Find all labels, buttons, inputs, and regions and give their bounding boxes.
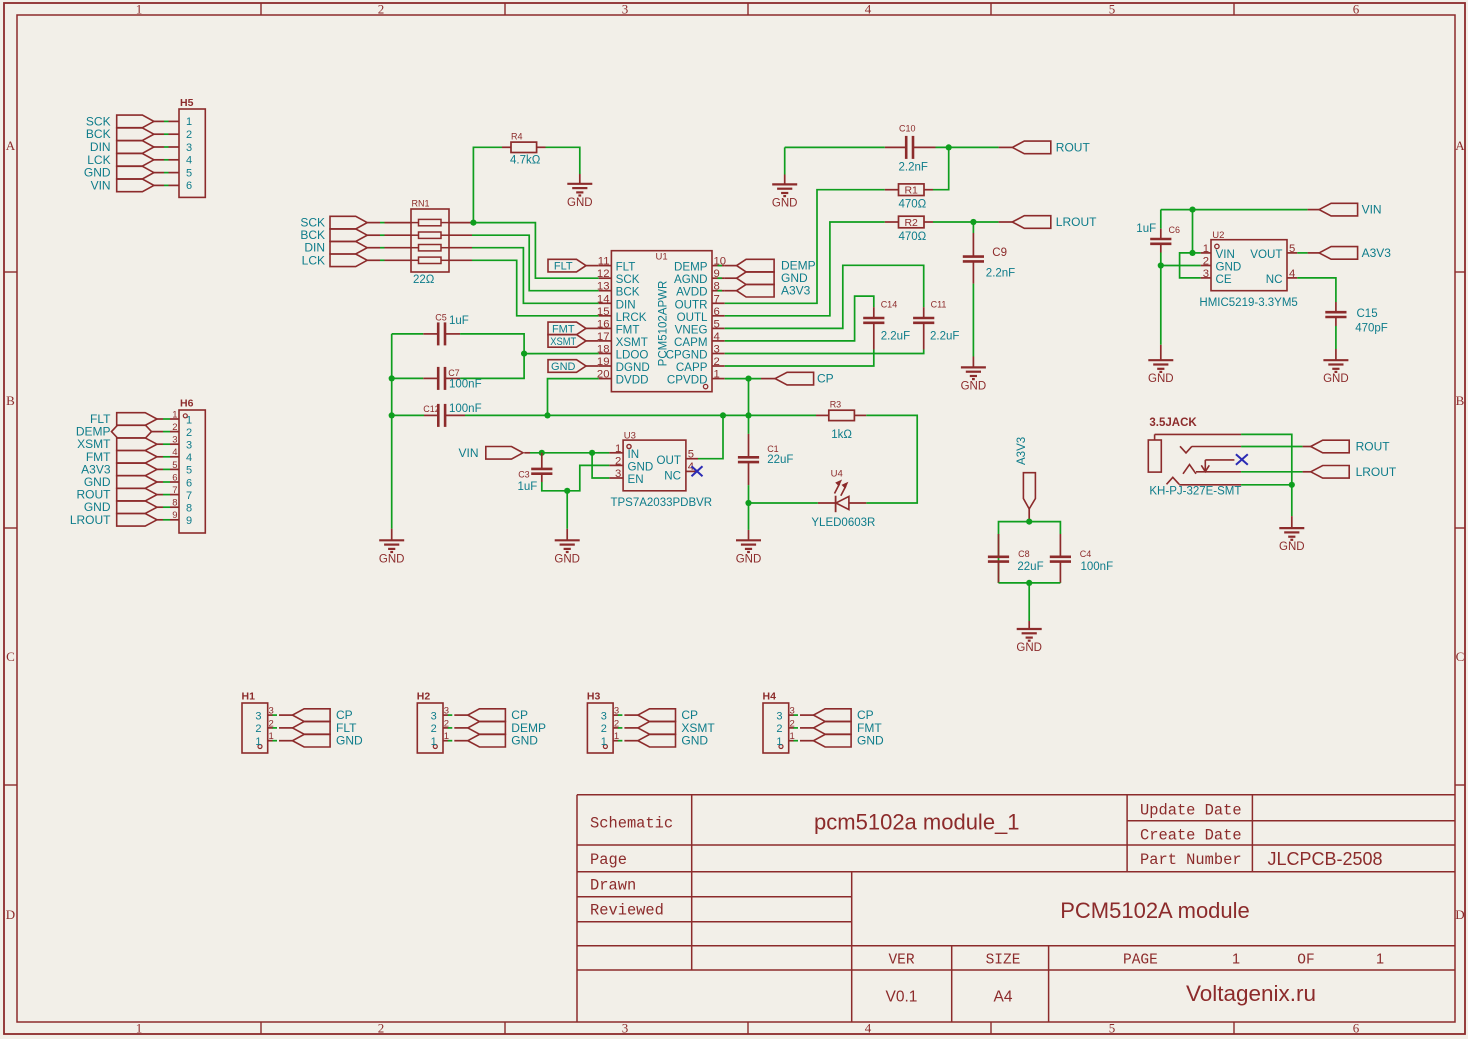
svg-text:GND: GND — [1323, 373, 1349, 385]
svg-text:4: 4 — [186, 155, 192, 167]
junction C12 gnd rail — [389, 412, 395, 418]
wire C11 to CPGND — [725, 350, 924, 354]
svg-text:C: C — [1456, 649, 1465, 664]
svg-text:3: 3 — [622, 1021, 629, 1036]
wire SCK — [449, 222, 473, 224]
capacitor C1 22uF — [738, 415, 794, 485]
svg-text:A: A — [6, 138, 16, 153]
net flag VIN (U2) — [1308, 203, 1382, 217]
H3 pin 3 flag CP — [613, 708, 698, 722]
capacitor C9 2.2nF — [963, 222, 1015, 284]
svg-text:1kΩ: 1kΩ — [831, 429, 852, 441]
svg-text:U1: U1 — [656, 252, 668, 263]
H6 pin 4 flag FMT — [86, 450, 179, 464]
svg-text:3: 3 — [615, 468, 621, 480]
svg-text:ROUT: ROUT — [1356, 440, 1391, 454]
wire jack gnd drop — [1291, 485, 1293, 516]
svg-text:CAPM: CAPM — [674, 336, 708, 349]
svg-text:18: 18 — [597, 344, 610, 356]
svg-text:GND: GND — [551, 361, 576, 373]
svg-text:U4: U4 — [831, 469, 843, 480]
junction C1/rail — [745, 412, 751, 418]
ground (C9) — [961, 357, 987, 393]
capacitor C4 100nF — [1050, 534, 1113, 583]
net flag GND — [718, 271, 809, 285]
net flag A3V3 — [718, 284, 811, 298]
svg-text:GND: GND — [1148, 373, 1174, 385]
svg-text:YLED0603R: YLED0603R — [811, 517, 875, 529]
svg-text:1uF: 1uF — [449, 315, 469, 327]
svg-text:SCK: SCK — [616, 273, 640, 286]
svg-text:GND: GND — [336, 734, 363, 748]
svg-text:AVDD: AVDD — [676, 286, 707, 299]
connector H5 — [179, 97, 205, 197]
svg-text:3: 3 — [255, 710, 261, 722]
ground (U3) — [554, 529, 580, 566]
svg-text:GND: GND — [1279, 541, 1305, 553]
wire VNEG to C11 — [725, 265, 924, 328]
svg-text:2: 2 — [378, 2, 385, 17]
svg-text:OUTL: OUTL — [677, 311, 708, 324]
net flag LROUT (jack) — [1303, 465, 1397, 479]
svg-text:C14: C14 — [881, 300, 898, 310]
net flag ROUT (jack) — [1303, 440, 1391, 454]
svg-text:1: 1 — [136, 2, 143, 17]
wire VIN top rail — [1161, 209, 1308, 211]
svg-text:H3: H3 — [587, 691, 601, 703]
svg-text:R1: R1 — [904, 185, 918, 197]
capacitor C10 2.2nF — [885, 124, 936, 174]
svg-text:C9: C9 — [992, 247, 1007, 259]
wire C6 to U2.GND — [1161, 253, 1201, 266]
svg-text:14: 14 — [597, 293, 610, 305]
svg-text:15: 15 — [597, 306, 610, 318]
connector H3 — [587, 691, 619, 754]
svg-text:6: 6 — [1353, 1021, 1360, 1036]
connector J1 3.5JACK KH-PJ-327E-SMT — [1148, 417, 1241, 498]
svg-text:H2: H2 — [417, 691, 431, 703]
wire U3 gnd drop — [566, 491, 568, 529]
svg-text:1: 1 — [186, 414, 192, 426]
wire OUTL to R2 — [725, 222, 885, 316]
wire U2 gnd drop — [1160, 266, 1162, 345]
no-connect X (jack mic) — [1236, 454, 1248, 465]
svg-text:U3: U3 — [624, 430, 636, 441]
svg-text:2: 2 — [186, 129, 192, 141]
svg-text:3: 3 — [431, 710, 437, 722]
wire C15 to GND — [1335, 326, 1337, 349]
wire DIN — [449, 247, 472, 249]
svg-text:100nF: 100nF — [449, 379, 482, 391]
svg-text:5: 5 — [1109, 2, 1116, 17]
wire CPVDD to 3V3 rail — [748, 379, 750, 416]
wire C9 to GND — [972, 284, 974, 357]
wire ROUT — [936, 146, 999, 148]
wire LED to gnd junction — [749, 502, 818, 504]
svg-text:2: 2 — [615, 455, 621, 467]
capacitor C3 1uF — [518, 453, 553, 493]
ground (jack) — [1279, 516, 1305, 553]
capacitor C12 100nF — [392, 403, 482, 427]
svg-text:C12: C12 — [423, 404, 440, 414]
net flag ROUT — [1012, 140, 1090, 154]
svg-text:470Ω: 470Ω — [899, 199, 927, 211]
junction C3 tap — [539, 450, 545, 456]
svg-text:11: 11 — [598, 256, 610, 268]
svg-text:1: 1 — [1376, 952, 1384, 968]
wire VIN drop to U2.VIN — [1192, 210, 1194, 253]
svg-text:2: 2 — [431, 723, 437, 735]
wire EN tie — [592, 453, 609, 478]
svg-text:2.2uF: 2.2uF — [881, 331, 910, 343]
H1 pin 1 flag GND — [268, 734, 363, 748]
svg-text:pcm5102a module_1: pcm5102a module_1 — [814, 810, 1019, 835]
wire C7 to LDOO — [460, 354, 524, 379]
wire to gnd — [1028, 583, 1030, 621]
junction VIN — [1189, 207, 1195, 213]
LED U4 YLED0603R — [811, 469, 875, 529]
svg-text:5: 5 — [186, 167, 192, 179]
wire jack sleeve — [1241, 434, 1292, 484]
capacitor C14 2.2uF — [863, 300, 910, 350]
H6 pin 6 flag GND — [84, 475, 179, 489]
svg-text:Drawn: Drawn — [590, 877, 636, 895]
net flag DEMP — [718, 259, 816, 273]
net flag DIN — [304, 241, 411, 255]
svg-text:1: 1 — [1203, 243, 1209, 255]
resistor R3 1k — [816, 399, 866, 441]
wire OUTR to R1 — [725, 190, 885, 304]
H6 pin 3 flag XSMT — [77, 437, 179, 451]
svg-text:6: 6 — [186, 477, 192, 489]
connector H6 — [172, 398, 205, 534]
svg-text:1: 1 — [255, 736, 261, 748]
svg-text:OF: OF — [1297, 953, 1314, 969]
svg-text:2: 2 — [1203, 256, 1209, 268]
svg-text:CP: CP — [817, 372, 834, 386]
wire CE tie — [1180, 253, 1201, 278]
svg-text:DGND: DGND — [616, 361, 650, 374]
net flag VIN — [458, 446, 530, 460]
svg-text:GND: GND — [681, 734, 708, 748]
svg-text:IN: IN — [628, 448, 640, 461]
svg-text:Create Date: Create Date — [1140, 827, 1242, 845]
svg-text:C10: C10 — [899, 124, 916, 134]
H5 pin 3 flag DIN — [90, 140, 179, 154]
svg-text:470pF: 470pF — [1355, 323, 1388, 335]
connector H2 — [417, 691, 449, 754]
svg-text:C7: C7 — [448, 368, 460, 378]
H6 pin 9 flag LROUT — [70, 513, 179, 527]
svg-text:AGND: AGND — [674, 273, 708, 286]
svg-text:FMT: FMT — [616, 323, 640, 336]
svg-text:2: 2 — [378, 1021, 385, 1036]
svg-text:CE: CE — [1216, 273, 1232, 286]
svg-text:PCM5102A module: PCM5102A module — [1060, 898, 1250, 923]
H5 pin 1 flag SCK — [86, 114, 179, 128]
net flag SCK — [300, 216, 411, 230]
svg-text:1: 1 — [186, 116, 192, 128]
H6 pin 5 flag A3V3 — [81, 462, 179, 476]
svg-text:GND: GND — [567, 197, 593, 209]
svg-text:LROUT: LROUT — [1056, 215, 1097, 229]
svg-text:2.2nF: 2.2nF — [986, 268, 1015, 280]
svg-text:A3V3: A3V3 — [781, 284, 811, 298]
wire jack shield gnd — [1241, 484, 1292, 486]
svg-text:B: B — [6, 393, 15, 408]
capacitor C5 1uF — [392, 312, 469, 345]
svg-text:GND: GND — [379, 553, 405, 565]
net flag CP — [761, 372, 834, 386]
regulator U2 HMIC5219-3.3YM5 — [1199, 230, 1297, 309]
H2 pin 3 flag CP — [443, 708, 528, 722]
junction LDOO — [521, 351, 527, 357]
wire C1 gnd drop — [748, 503, 750, 530]
svg-text:XSMT: XSMT — [616, 336, 648, 349]
svg-text:FLT: FLT — [616, 261, 636, 274]
svg-text:22Ω: 22Ω — [413, 274, 435, 286]
svg-text:22uF: 22uF — [1017, 561, 1043, 573]
svg-text:4.7kΩ: 4.7kΩ — [510, 155, 541, 167]
wire U2.NC to C15 — [1297, 278, 1336, 302]
H6 pin 2 flag DEMP — [76, 425, 179, 439]
wire C1 to gnd/LED — [748, 485, 750, 503]
svg-text:Update Date: Update Date — [1140, 802, 1242, 820]
svg-text:VIN: VIN — [458, 446, 478, 460]
H4 pin 3 flag CP — [789, 708, 874, 722]
svg-text:Page: Page — [590, 851, 627, 869]
svg-text:DEMP: DEMP — [674, 261, 708, 274]
svg-text:100nF: 100nF — [1081, 561, 1114, 573]
svg-text:R2: R2 — [904, 217, 918, 229]
svg-text:D: D — [1455, 907, 1464, 922]
junction U3 gnd — [564, 488, 570, 494]
svg-text:2: 2 — [255, 723, 261, 735]
svg-text:1: 1 — [136, 1021, 143, 1036]
junction SCK/R4 — [470, 220, 476, 226]
svg-text:RN1: RN1 — [412, 199, 430, 209]
junction OUT/rail — [720, 412, 726, 418]
svg-text:3.5JACK: 3.5JACK — [1149, 417, 1197, 429]
svg-text:B: B — [1456, 393, 1465, 408]
svg-text:1uF: 1uF — [1136, 223, 1156, 235]
svg-text:H5: H5 — [180, 97, 194, 109]
net flag XSMT (pin) — [548, 335, 599, 348]
wire U2.VIN — [1193, 252, 1201, 254]
svg-text:BCK: BCK — [616, 286, 640, 299]
svg-text:SIZE: SIZE — [986, 953, 1021, 969]
svg-text:NC: NC — [664, 470, 681, 483]
svg-text:C8: C8 — [1018, 549, 1030, 559]
svg-text:C15: C15 — [1357, 308, 1378, 320]
svg-text:2.2nF: 2.2nF — [899, 162, 928, 174]
svg-text:A3V3: A3V3 — [1016, 437, 1028, 465]
svg-text:19: 19 — [597, 356, 610, 368]
H5 pin 4 flag LCK — [87, 153, 179, 167]
svg-text:Part Number: Part Number — [1140, 851, 1242, 869]
ground (C5/C7/C12) — [379, 529, 405, 566]
junction U2.VIN — [1189, 250, 1195, 256]
svg-text:C4: C4 — [1080, 549, 1092, 559]
svg-text:VER: VER — [888, 953, 914, 969]
net flag GND (pin) — [548, 360, 599, 373]
ground (C10) — [772, 175, 798, 210]
svg-text:5: 5 — [1109, 1021, 1116, 1036]
svg-text:LROUT: LROUT — [1356, 465, 1397, 479]
svg-text:LDOO: LDOO — [616, 349, 649, 362]
svg-text:R4: R4 — [511, 132, 523, 142]
ground (C15) — [1323, 349, 1349, 385]
regulator U3 TPS7A2033PDBVR — [609, 430, 712, 509]
svg-text:PAGE: PAGE — [1123, 953, 1158, 969]
svg-text:R3: R3 — [830, 399, 842, 409]
svg-text:A: A — [1455, 138, 1465, 153]
svg-text:3: 3 — [622, 2, 629, 17]
wire A3V3 rail top — [999, 522, 1061, 583]
svg-text:FLT: FLT — [554, 261, 573, 273]
resistor R1 470R — [885, 184, 933, 211]
wire C10 left to GND — [785, 146, 885, 148]
power flag A3V3 — [1016, 437, 1035, 522]
ground (U2) — [1148, 345, 1174, 385]
svg-text:C5: C5 — [435, 312, 447, 322]
svg-text:8: 8 — [186, 503, 192, 515]
junction LROUT — [970, 219, 976, 225]
svg-text:GND: GND — [857, 734, 884, 748]
H4 pin 1 flag GND — [789, 734, 884, 748]
capacitor C7 100nF — [392, 367, 482, 391]
svg-text:1: 1 — [776, 736, 782, 748]
H2 pin 2 flag DEMP — [443, 721, 546, 735]
svg-text:V0.1: V0.1 — [886, 989, 918, 1006]
wire jack tip ROUT — [1241, 446, 1303, 448]
net flag A3V3 (U2) — [1297, 246, 1391, 260]
svg-text:2: 2 — [714, 356, 720, 368]
junction LED gnd — [745, 500, 751, 506]
svg-text:4: 4 — [714, 331, 720, 343]
svg-text:C3: C3 — [518, 470, 530, 480]
ground (C1) — [736, 530, 762, 565]
capacitor C8 22uF — [988, 534, 1044, 583]
svg-text:NC: NC — [1266, 273, 1283, 286]
svg-text:DVDD: DVDD — [616, 374, 649, 387]
svg-text:D: D — [6, 907, 15, 922]
svg-text:LROUT: LROUT — [70, 513, 111, 527]
wire LDOO — [524, 353, 599, 355]
svg-text:4: 4 — [865, 1021, 872, 1036]
svg-text:4: 4 — [186, 452, 192, 464]
svg-text:6: 6 — [714, 306, 720, 318]
junction A3V3 — [1026, 519, 1032, 525]
svg-text:9: 9 — [186, 515, 192, 527]
svg-text:7: 7 — [186, 490, 192, 502]
wire CPVDD — [725, 378, 761, 380]
svg-text:3: 3 — [601, 710, 607, 722]
svg-text:KH-PJ-327E-SMT: KH-PJ-327E-SMT — [1149, 486, 1241, 498]
svg-text:1: 1 — [431, 736, 437, 748]
svg-text:Reviewed: Reviewed — [590, 902, 664, 920]
junction C5/C7 gnd rail — [389, 375, 395, 381]
svg-text:XSMT: XSMT — [550, 336, 576, 348]
svg-text:100nF: 100nF — [449, 403, 482, 415]
svg-text:C11: C11 — [931, 300, 947, 310]
svg-text:4: 4 — [865, 2, 872, 17]
op-amp U1 PCM5102APWR — [597, 251, 726, 392]
net flag BCK — [300, 228, 411, 242]
no-connect X (U3.NC) — [692, 466, 703, 476]
H1 pin 3 flag CP — [268, 708, 353, 722]
resistor R2 470R — [885, 216, 933, 243]
svg-text:GND: GND — [1216, 260, 1242, 273]
svg-text:3: 3 — [186, 440, 192, 452]
svg-text:2: 2 — [186, 427, 192, 439]
connector H4 — [763, 691, 795, 754]
H4 pin 2 flag FMT — [789, 721, 883, 735]
svg-text:1: 1 — [714, 369, 720, 381]
svg-text:3: 3 — [1203, 268, 1209, 280]
svg-text:1: 1 — [615, 443, 621, 455]
svg-text:HMIC5219-3.3YM5: HMIC5219-3.3YM5 — [1199, 297, 1297, 309]
wire jack ring LROUT — [1241, 471, 1303, 473]
wire gnd rail left — [391, 334, 393, 529]
H1 pin 2 flag FLT — [268, 721, 357, 735]
net flag LROUT — [1012, 215, 1097, 229]
wire C5 to LDOO — [460, 334, 524, 354]
wire 3V3 rail — [465, 414, 816, 416]
svg-text:4: 4 — [1289, 268, 1295, 280]
svg-text:5: 5 — [714, 318, 720, 330]
svg-text:1uF: 1uF — [518, 481, 538, 493]
wire DVDD — [548, 379, 599, 416]
net flag LCK — [302, 253, 411, 267]
H5 pin 6 flag VIN — [91, 178, 179, 192]
junction EN tap — [589, 450, 595, 456]
svg-text:OUTR: OUTR — [675, 298, 708, 311]
wire CAPM to C14 — [725, 296, 874, 341]
svg-text:DIN: DIN — [616, 298, 636, 311]
svg-text:1: 1 — [1232, 952, 1240, 968]
svg-text:FMT: FMT — [552, 323, 575, 335]
svg-text:VIN: VIN — [1362, 203, 1382, 217]
svg-text:Schematic: Schematic — [590, 815, 673, 833]
ground (C8/C4) — [1016, 621, 1042, 654]
H3 pin 1 flag GND — [613, 734, 708, 748]
H3 pin 2 flag XSMT — [613, 721, 715, 735]
wire R1 to ROUT node — [933, 147, 949, 189]
svg-text:GND: GND — [511, 734, 538, 748]
svg-text:6: 6 — [186, 180, 192, 192]
svg-text:6: 6 — [1353, 2, 1360, 17]
wire LCK — [449, 259, 472, 261]
svg-text:GND: GND — [772, 197, 798, 209]
svg-text:22uF: 22uF — [767, 454, 793, 466]
svg-text:GND: GND — [554, 553, 580, 565]
wire C3 to GND net — [542, 465, 610, 490]
svg-text:12: 12 — [597, 268, 610, 280]
junction DVDD — [544, 412, 550, 418]
svg-text:2: 2 — [601, 723, 607, 735]
connector H1 — [242, 691, 274, 754]
svg-text:3: 3 — [186, 142, 192, 154]
ground (R4) — [567, 174, 593, 209]
svg-text:H4: H4 — [763, 691, 777, 703]
H5 pin 2 flag BCK — [86, 127, 179, 141]
svg-text:20: 20 — [597, 369, 610, 381]
svg-text:GND: GND — [628, 461, 654, 474]
svg-text:A3V3: A3V3 — [1362, 246, 1392, 260]
svg-text:CAPP: CAPP — [676, 361, 708, 374]
svg-text:2.2uF: 2.2uF — [930, 331, 959, 343]
